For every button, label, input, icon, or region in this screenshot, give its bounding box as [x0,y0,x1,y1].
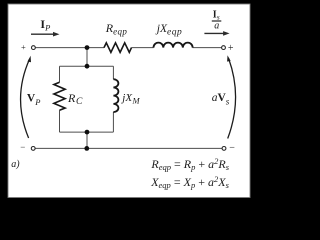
node junction box bottom [85,130,90,135]
wire bottom segment [35,147,222,149]
voltage arc aVs [227,55,235,138]
terminal bottom-left [31,147,35,151]
wire left branch lower [59,110,61,132]
svg-text:−: − [20,142,25,152]
wire resistor-to-coil segment [132,47,154,49]
terminal top-left [32,46,36,50]
svg-text:a): a) [11,159,20,170]
current arrow Ip [31,32,60,37]
node junction box top [85,64,90,69]
wire top-left segment [35,47,104,49]
wire right branch lower [112,112,114,132]
svg-text:a: a [214,21,219,32]
inductor jXeqp [154,43,193,48]
node junction bottom wire [84,146,89,151]
resistor RC [54,82,65,110]
wire shunt vertical top [86,48,88,67]
terminal bottom-right [222,147,226,151]
svg-text:Is: Is [213,10,220,22]
current arrow Is/a [204,31,229,36]
svg-text:+: + [228,43,234,54]
wire left branch upper [59,66,61,82]
resistor Reqp [104,43,132,53]
inductor jXM [113,79,118,112]
wire shunt vertical bottom [86,132,88,148]
wire top-right segment [193,47,222,49]
wire box top rail [60,65,114,67]
white figure panel [8,4,250,198]
terminal top-right [222,46,226,50]
node junction top [85,45,90,50]
wire right branch upper [112,66,114,79]
svg-text:+: + [21,42,26,52]
svg-text:−: − [229,143,235,154]
wire box bottom rail [60,131,114,133]
voltage arc Vp [21,56,31,138]
label Is/a fraction [212,10,222,32]
